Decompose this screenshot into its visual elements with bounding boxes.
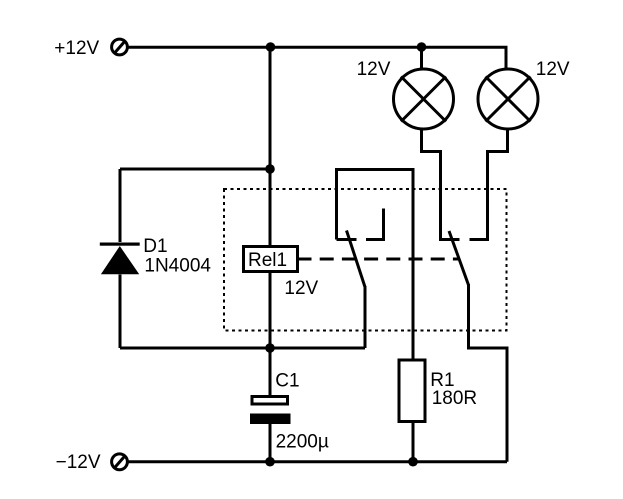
- capacitor C1 bottom lead: [269, 424, 272, 462]
- wire relay coil top feed: [269, 47, 272, 245]
- switch S1 movable arm: [347, 231, 366, 288]
- svg-text:D1: D1: [143, 236, 167, 257]
- wire bottom -12V rail: [129, 460, 508, 463]
- wire switch S1 arm lead down: [364, 286, 367, 348]
- node junction bottom rail / R1: [408, 457, 418, 467]
- wire diode branch horizontal: [120, 168, 270, 171]
- resistor R1 180R: [399, 360, 425, 422]
- svg-text:12V: 12V: [536, 59, 570, 80]
- diode D1 1N4004: [100, 243, 140, 275]
- node junction coil bottom / capacitor: [265, 343, 275, 353]
- lamp LA1 12V: [394, 69, 454, 129]
- dashed relay actuation link: [298, 258, 459, 261]
- wire relay coil bottom lead: [269, 273, 272, 348]
- svg-text:180R: 180R: [432, 388, 477, 409]
- switch S1 unconnected contact stub: [366, 209, 384, 240]
- wire lamp1 bottom to switch S2 left fixed contact: [422, 130, 460, 240]
- wire switch S2 arm to bottom rail: [469, 284, 508, 462]
- svg-text:1N4004: 1N4004: [144, 256, 211, 277]
- svg-text:−12V: −12V: [56, 452, 101, 473]
- node junction top rail / relay branch: [266, 42, 276, 52]
- dotted relay enclosure box: [224, 189, 507, 331]
- svg-text:12V: 12V: [357, 59, 391, 80]
- lamp LA2 12V: [478, 69, 538, 129]
- wire lamp2 bottom to switch S2 right fixed contact: [470, 130, 508, 240]
- wire diode cathode lead: [119, 169, 122, 242]
- svg-text:C1: C1: [275, 370, 299, 391]
- capacitor C1 top lead: [269, 348, 272, 395]
- switch S2 movable arm: [449, 231, 469, 285]
- wire coil bottom horizontal to switch S1 arm: [120, 347, 365, 350]
- wire top +12V rail: [128, 47, 506, 69]
- svg-text:2200µ: 2200µ: [276, 431, 329, 452]
- switch S1 left fixed contact foot: [337, 238, 357, 241]
- capacitor C1 2200u: [250, 397, 291, 425]
- node junction bottom rail / capacitor: [265, 457, 275, 467]
- power terminal +12V: [112, 39, 128, 55]
- relay coil Rel1: [244, 247, 298, 272]
- node junction top rail / lamp1 branch: [417, 42, 427, 52]
- wire switch S1 left fixed contact to R1 top (frame): [337, 170, 414, 359]
- svg-text:Rel1: Rel1: [248, 250, 287, 271]
- power terminal -12V: [112, 454, 128, 470]
- svg-text:+12V: +12V: [54, 38, 99, 59]
- wire R1 bottom lead: [412, 423, 415, 462]
- wire lamp1 top feed: [420, 47, 423, 69]
- node junction relay top / diode branch: [265, 164, 275, 174]
- wire diode anode lead: [119, 275, 122, 349]
- svg-text:12V: 12V: [284, 278, 318, 299]
